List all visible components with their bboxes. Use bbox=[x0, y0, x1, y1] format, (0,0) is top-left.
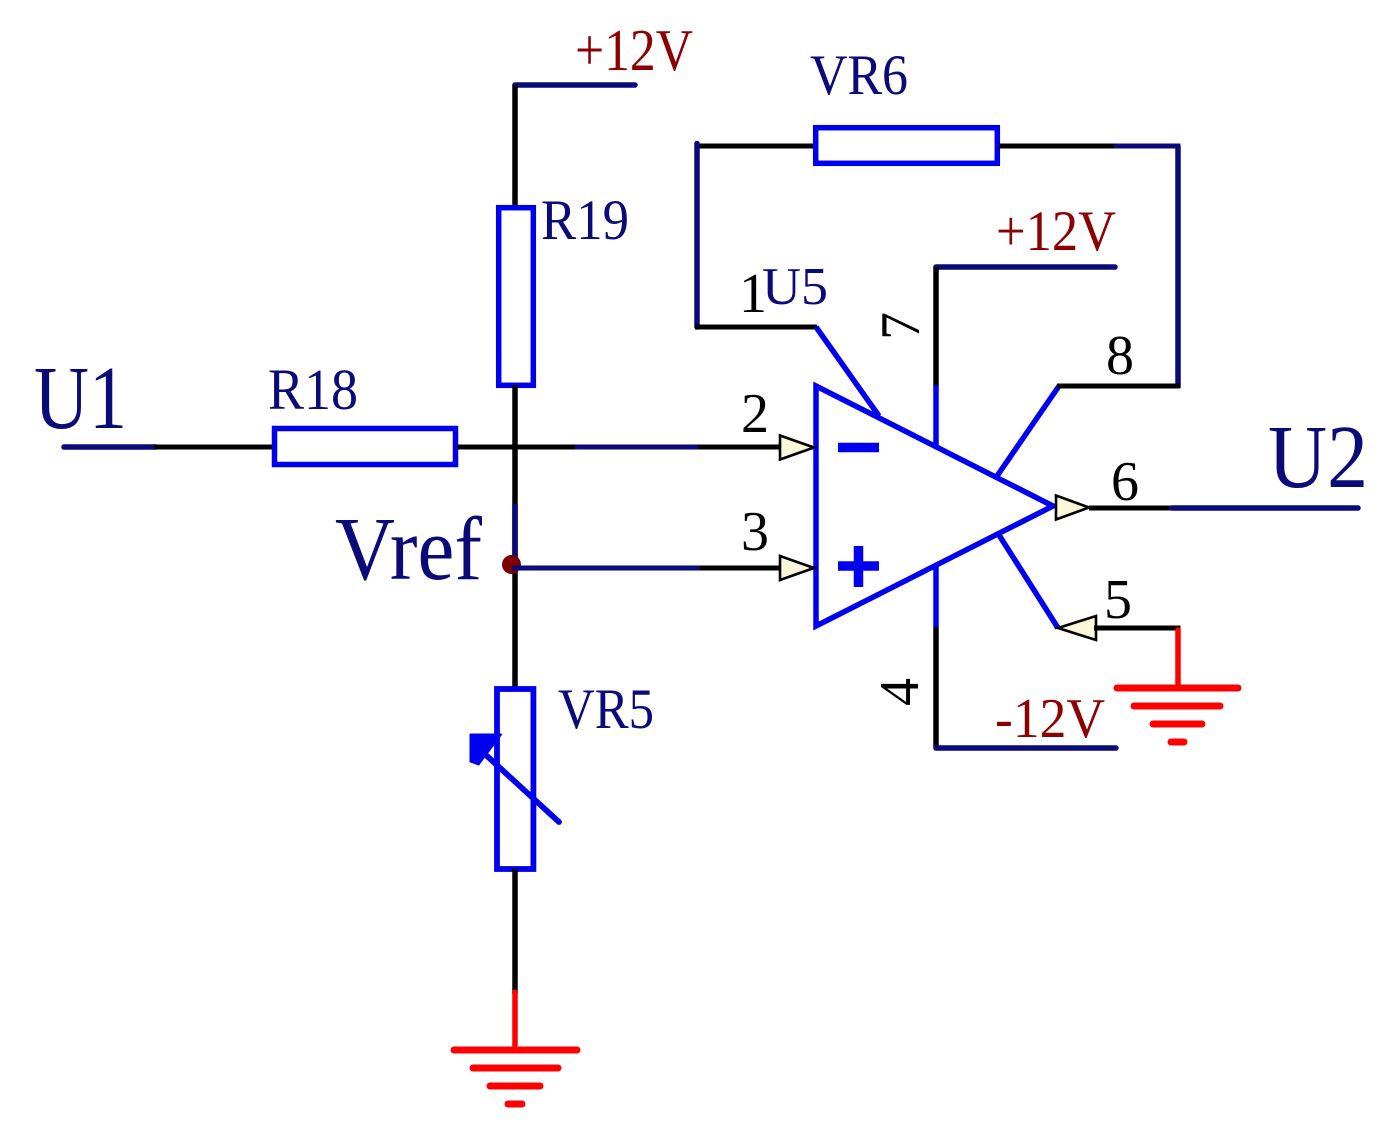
pin 5 arrowhead bbox=[1058, 616, 1096, 640]
op-amp U5 pin5 lead bbox=[999, 535, 1058, 628]
svg-text:VR6: VR6 bbox=[810, 44, 908, 107]
svg-text:8: 8 bbox=[1106, 325, 1134, 387]
svg-text:+12V: +12V bbox=[996, 200, 1116, 263]
potentiometer VR5 wiper arrow bbox=[487, 756, 559, 822]
wire Vref stub (navy) bbox=[512, 504, 518, 566]
op-amp U5 triangle bbox=[816, 386, 1053, 626]
wire VR6 left vertical (navy) bbox=[694, 144, 700, 328]
svg-text:5: 5 bbox=[1104, 569, 1132, 631]
svg-text:R19: R19 bbox=[541, 189, 629, 252]
resistor R18 bbox=[275, 429, 456, 465]
wire +12V rail horizontal (top) bbox=[515, 82, 635, 88]
op-amp U5 pin7/pin4 stubs bbox=[933, 385, 939, 627]
wire pin6 to U2 (black segment) bbox=[1089, 506, 1173, 511]
svg-text:Vref: Vref bbox=[335, 500, 482, 599]
resistor VR6 bbox=[816, 128, 998, 164]
svg-text:2: 2 bbox=[741, 383, 769, 445]
wire R19 to VR5 vertical bbox=[512, 385, 518, 687]
op-amp minus sign bbox=[838, 443, 879, 453]
wire pin4 vertical bbox=[933, 627, 939, 748]
svg-text:U5: U5 bbox=[762, 258, 828, 316]
ground (pin5) bbox=[1117, 630, 1238, 742]
svg-text:U2: U2 bbox=[1268, 408, 1368, 507]
wire -12V horizontal (navy) bbox=[936, 745, 1116, 751]
op-amp plus sign bbox=[838, 561, 879, 571]
wire +12V supply horizontal (navy) bbox=[936, 264, 1115, 270]
wire to pin3 (black segment) bbox=[700, 566, 783, 571]
potentiometer VR5 bbox=[497, 689, 533, 869]
svg-text:R18: R18 bbox=[268, 357, 358, 422]
svg-text:VR5: VR5 bbox=[558, 678, 654, 741]
wire VR6 right horizontal (navy) bbox=[1114, 144, 1181, 149]
svg-text:3: 3 bbox=[741, 501, 769, 563]
svg-text:7: 7 bbox=[870, 312, 932, 340]
wire feedback vertical (navy) bbox=[1175, 146, 1181, 388]
wire VR5 to ground bbox=[512, 869, 518, 994]
svg-text:6: 6 bbox=[1111, 451, 1139, 513]
ground (below VR5) bbox=[454, 992, 577, 1104]
pin 2 input arrowhead bbox=[780, 436, 814, 460]
wire to pin2 (black segment) bbox=[698, 445, 783, 450]
wire pin5 to ground bbox=[1094, 626, 1181, 631]
wire pin6 to U2 (navy segment) bbox=[1172, 505, 1358, 511]
wire VR6 left horizontal bbox=[695, 144, 815, 149]
node Vref dot bbox=[502, 555, 521, 574]
svg-text:-12V: -12V bbox=[995, 688, 1105, 750]
wire U1 to R18 bbox=[154, 445, 273, 450]
wire U1 stub bbox=[64, 444, 156, 450]
pin 3 input arrowhead bbox=[780, 556, 814, 580]
wire pin8 horizontal bbox=[1057, 384, 1180, 389]
svg-text:U1: U1 bbox=[34, 349, 127, 448]
op-amp U5 pin1 lead bbox=[816, 327, 879, 416]
svg-text:4: 4 bbox=[869, 678, 931, 706]
wire pin7 vertical bbox=[933, 267, 939, 386]
svg-text:+12V: +12V bbox=[575, 17, 693, 83]
resistor R19 bbox=[499, 208, 534, 386]
wire VR6 right horizontal (black) bbox=[999, 144, 1115, 149]
wire +12V to R19 bbox=[512, 85, 518, 206]
wire Vref to pin3 (navy segment) bbox=[512, 566, 702, 571]
op-amp U5 pin8 lead bbox=[997, 386, 1059, 476]
wire junction to pin2 (navy segment) bbox=[575, 445, 700, 450]
pin 6 output arrowhead bbox=[1056, 496, 1089, 520]
wire R18 to junction bbox=[457, 445, 576, 450]
wire pin1 horizontal bbox=[695, 325, 817, 330]
